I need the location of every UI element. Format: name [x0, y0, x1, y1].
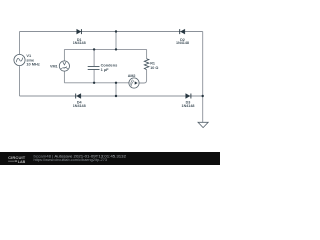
capacitor Condens (1 uF) — [88, 66, 100, 69]
svg-text:1 µF: 1 µF — [101, 67, 109, 72]
junction dot: top rail to measurement branch — [115, 30, 117, 32]
diode D1 (1N4148, pointing right) — [77, 29, 82, 34]
wire: lower measurement rail from VM1 bottom to AM2 left terminal — [64, 82, 128, 84]
wire: left vertical from top rail down to V1 — [19, 32, 21, 55]
resistor R1 (10 Ohm, vertical zigzag) — [144, 59, 149, 70]
voltmeter VM1 — [59, 61, 69, 71]
ammeter AM2 current arrow — [135, 81, 138, 84]
svg-text:1N4148: 1N4148 — [73, 41, 86, 45]
wire: R1 top lead from rail corner — [146, 49, 148, 58]
wire: VM1 bottom lead — [63, 71, 65, 83]
svg-text:1N4148: 1N4148 — [182, 104, 195, 108]
label D2 / 1N4148 — [176, 38, 189, 45]
junction dot: lower rail to bottom vertical — [115, 82, 117, 84]
label D3 / 1N4148 — [182, 101, 195, 108]
junction dot: capacitor bottom on lower rail — [93, 82, 95, 84]
junction dot: bottom rail at ground stub — [202, 95, 204, 97]
footer bar — [0, 152, 220, 165]
svg-text:10 Ω: 10 Ω — [150, 66, 158, 70]
label Condens / 1 uF — [101, 62, 118, 72]
label R1 / 10 Ohm — [150, 62, 158, 70]
wire: VM1 top lead — [63, 49, 65, 61]
wire: right vertical from top rail down to bottom rail — [202, 32, 204, 97]
svg-text:https://www.circuitlab.com/c/b: https://www.circuitlab.com/c/baeng2/tp-2… — [34, 158, 108, 162]
wire: top rail from V1 top-left corner to top-right corner — [20, 31, 203, 33]
svg-text:10 MHz: 10 MHz — [26, 62, 39, 67]
svg-text:VM1: VM1 — [50, 64, 58, 68]
ammeter AM2 — [129, 78, 139, 88]
svg-text:AM2: AM2 — [128, 74, 136, 78]
svg-text:1N4148: 1N4148 — [176, 41, 189, 45]
svg-text:1N4148: 1N4148 — [73, 104, 86, 108]
junction dot: bottom rail at vertical feed — [115, 95, 117, 97]
wire: vertical from lower rail junction down to bottom rail — [115, 83, 117, 96]
diode D2 (1N4148, pointing left) — [180, 29, 185, 34]
label D1 / 1N4148 — [73, 38, 86, 45]
wire: left vertical from V1 down to bottom rail — [19, 66, 21, 96]
junction dot: capacitor top on upper rail — [93, 48, 95, 50]
ground symbol — [198, 122, 208, 127]
footer CircuitLab logo — [8, 155, 26, 164]
svg-text:LAB: LAB — [18, 160, 26, 164]
label D4 / 1N4148 — [73, 101, 86, 108]
junction dot: upper measurement rail at vertical feed — [115, 48, 117, 50]
wire: bottom rail from bottom-left corner to bottom-right corner — [20, 95, 203, 97]
value label V1 / sine / 10 MHz — [26, 53, 39, 67]
wire: vertical from top rail junction down to measurement rail — [115, 32, 117, 50]
voltage source V1 (sine) — [14, 54, 25, 65]
wire: right vertical stub from bottom rail down to ground — [202, 96, 204, 122]
diode D4 (1N4148, pointing left) — [76, 94, 81, 99]
wire: R1 bottom lead with rounded corner to AM2 right terminal — [139, 70, 146, 83]
wire: capacitor bottom lead — [93, 70, 95, 83]
wire: capacitor top lead — [93, 49, 95, 66]
diode D3 (1N4148, pointing right) — [186, 94, 191, 99]
wire: upper measurement rail from VM1 branch to R1 branch — [64, 48, 146, 50]
